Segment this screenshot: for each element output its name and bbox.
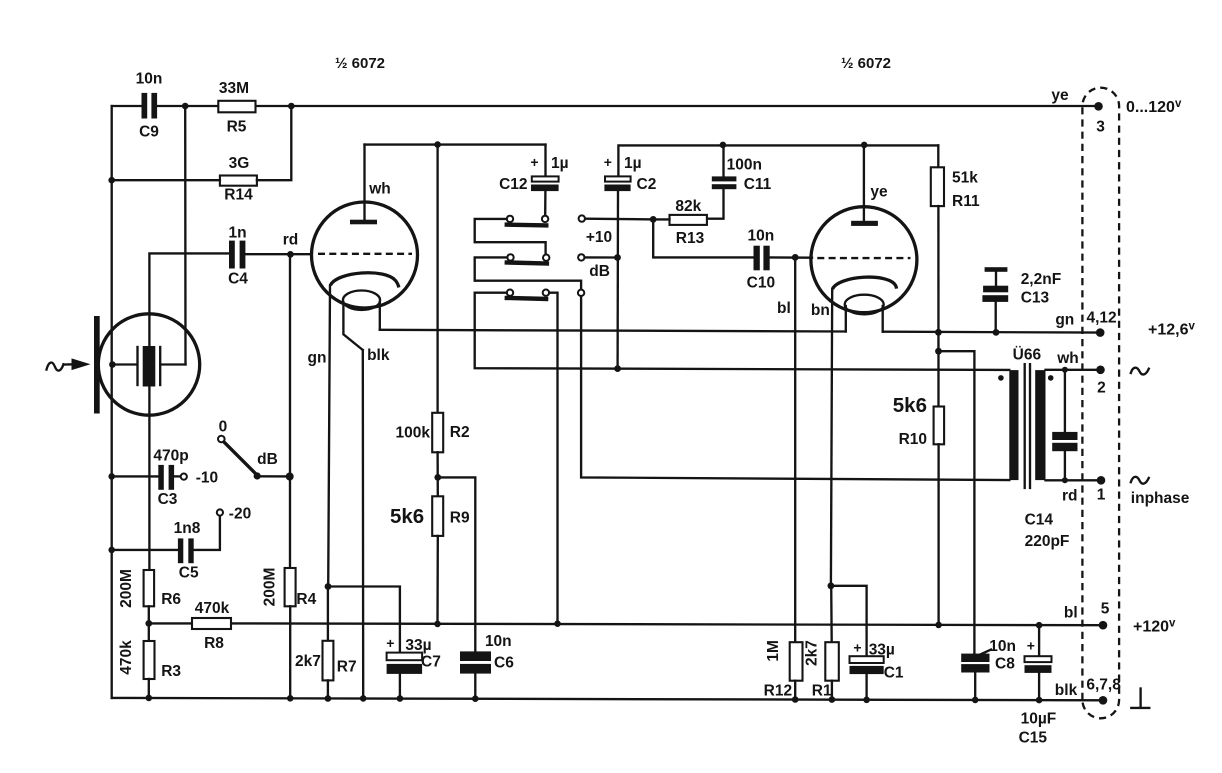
- svg-text:C11: C11: [744, 176, 772, 193]
- junction R3/ground: [146, 695, 153, 702]
- wire lower contact to transformer primary bottom: [581, 296, 1009, 480]
- capacitor C3 470p: [153, 448, 188, 508]
- svg-text:+: +: [386, 635, 394, 651]
- junction R5/R14 right: [288, 103, 295, 110]
- wire R13 node to C10: [653, 219, 753, 257]
- wire +120V rail: [231, 623, 1103, 625]
- svg-text:1µ: 1µ: [624, 155, 642, 172]
- wire left ground rail: [111, 106, 113, 698]
- svg-text:+: +: [853, 640, 861, 656]
- resistor R11 51k: [931, 145, 980, 210]
- capacitor C1 33u electrolytic: [850, 640, 904, 682]
- junction blk/ground: [360, 695, 367, 702]
- wire R14 left to ground rail: [112, 179, 220, 181]
- junction ground rail/C3: [108, 473, 115, 480]
- wire heater rail V1b to terminal 4,12: [883, 331, 1100, 334]
- svg-text:ye: ye: [870, 184, 888, 201]
- junction C15/ground: [1036, 697, 1043, 704]
- svg-text:1µ: 1µ: [551, 155, 569, 172]
- wire C5 to -20 terminal: [194, 516, 220, 550]
- svg-text:bn: bn: [811, 302, 830, 319]
- ground symbol: [1131, 689, 1149, 708]
- svg-text:R6: R6: [161, 591, 181, 608]
- svg-text:33µ: 33µ: [405, 637, 431, 654]
- wire heater rail V1a to V1b: [380, 330, 846, 332]
- transformer phase dot primary: [998, 375, 1004, 381]
- wire bl grid line down to R12: [777, 257, 795, 642]
- capacitor C7 33u electrolytic: [386, 635, 441, 674]
- terminal 2: [1096, 366, 1106, 397]
- svg-text:10n: 10n: [485, 633, 512, 650]
- switch contact row3: [505, 290, 550, 300]
- resistor R3 470k: [118, 640, 181, 680]
- svg-text:Ü66: Ü66: [1013, 347, 1042, 364]
- tube V1b half 6072 envelope: [811, 207, 917, 313]
- svg-text:C10: C10: [747, 274, 775, 291]
- junction C14 top: [1062, 367, 1068, 373]
- svg-text:10n: 10n: [136, 71, 163, 88]
- junction C15/+120V rail: [1036, 622, 1043, 629]
- wire row3 left to transformer primary top: [475, 293, 1010, 370]
- svg-text:+: +: [530, 154, 538, 170]
- svg-text:+10: +10: [586, 229, 612, 246]
- junction C6/ground: [472, 695, 479, 702]
- junction ground rail/R14: [108, 177, 115, 184]
- junction C7/ground: [397, 695, 404, 702]
- resistor R1 2k7: [803, 586, 838, 700]
- terminal 6,7,8: [1055, 676, 1121, 704]
- svg-text:R11: R11: [952, 193, 980, 210]
- wire to capsule element left: [112, 363, 136, 365]
- junction R10/+120V rail: [935, 622, 942, 629]
- resistor R14 3G: [220, 155, 257, 204]
- wire R2-R9 node to C6: [438, 477, 476, 651]
- resistor R13 82k: [670, 198, 707, 247]
- svg-text:C4: C4: [228, 271, 248, 288]
- svg-text:C12: C12: [499, 176, 527, 193]
- svg-text:C7: C7: [421, 654, 441, 671]
- svg-text:C6: C6: [494, 654, 514, 671]
- resistor R2 100k: [396, 145, 470, 453]
- svg-text:ye: ye: [1051, 87, 1069, 104]
- wire bn cathode down to R1: [811, 289, 832, 586]
- terminal -20: [217, 506, 251, 523]
- junction C8/ground: [972, 697, 979, 704]
- svg-text:-10: -10: [196, 469, 218, 486]
- svg-text:bl: bl: [1064, 605, 1078, 622]
- tube V1a half 6072 envelope: [312, 202, 418, 308]
- svg-text:200M: 200M: [262, 568, 279, 607]
- switch contact row2: [505, 254, 550, 263]
- svg-text:R4: R4: [296, 591, 316, 608]
- capacitor C2 1u electrolytic: [604, 145, 939, 193]
- wire R11 to R10: [937, 206, 939, 406]
- junction branch to C8: [935, 348, 942, 355]
- tube V1a grid: [318, 253, 412, 255]
- svg-text:200M: 200M: [118, 569, 135, 608]
- svg-text:6,7,8: 6,7,8: [1086, 676, 1121, 693]
- svg-text:bl: bl: [777, 300, 791, 317]
- svg-text:10n: 10n: [748, 228, 775, 245]
- junction grid V1b/bl: [792, 254, 799, 261]
- wire +10 contact to R13: [585, 218, 653, 221]
- resistor R7 2k7: [295, 587, 357, 681]
- wire R4 to ground rail: [289, 606, 291, 698]
- wire C1 to ground rail: [865, 674, 867, 700]
- svg-text:gn: gn: [308, 350, 327, 367]
- svg-text:C9: C9: [139, 124, 159, 141]
- capacitor C4 1n: [228, 225, 248, 288]
- svg-text:2,2nF: 2,2nF: [1021, 271, 1061, 288]
- svg-text:+: +: [1027, 637, 1035, 653]
- svg-text:2k7: 2k7: [803, 640, 820, 666]
- svg-text:5: 5: [1101, 601, 1110, 618]
- svg-text:C2: C2: [637, 176, 657, 193]
- squiggle terminal 2: [1131, 368, 1149, 375]
- resistor R12 1M: [764, 640, 803, 699]
- terminal 3: [1051, 87, 1105, 136]
- wire cathode node to C7: [328, 587, 400, 652]
- svg-text:5k6: 5k6: [893, 394, 927, 417]
- tube V1b grid: [817, 257, 910, 259]
- tube V1a anode: [350, 145, 391, 225]
- svg-text:R5: R5: [227, 119, 247, 136]
- junction C2 bus/primary wire: [614, 365, 621, 372]
- svg-text:470p: 470p: [153, 448, 188, 465]
- svg-text:rd: rd: [1062, 488, 1078, 505]
- svg-text:10µF: 10µF: [1021, 711, 1057, 728]
- svg-text:C5: C5: [179, 565, 199, 582]
- svg-text:dB: dB: [257, 451, 278, 468]
- svg-text:C1: C1: [884, 665, 904, 682]
- resistor R6 200M: [118, 569, 181, 608]
- terminal 5: [1064, 601, 1110, 630]
- junction R9/+120V rail: [434, 621, 441, 628]
- wire dB contact to C2 bus: [585, 256, 618, 258]
- junction bn/R1/C1: [828, 582, 835, 589]
- svg-text:1M: 1M: [765, 640, 782, 662]
- capacitor C14 220pF: [1025, 370, 1078, 550]
- junction R2 top on anode rail: [434, 141, 441, 148]
- svg-text:+12,6v: +12,6v: [1148, 321, 1195, 339]
- wire R14 right up to top rail: [257, 106, 291, 180]
- svg-text:100k: 100k: [396, 425, 431, 442]
- capacitor C15 10uF: [1019, 625, 1057, 746]
- switch contact row1: [505, 216, 549, 226]
- wire C7 to ground rail: [399, 674, 401, 699]
- transformer phase dot secondary: [1048, 375, 1054, 381]
- svg-text:blk: blk: [1055, 682, 1078, 699]
- terminal -10: [181, 469, 218, 486]
- svg-text:C14: C14: [1025, 512, 1054, 529]
- svg-text:R2: R2: [450, 424, 470, 441]
- svg-text:220pF: 220pF: [1025, 533, 1070, 550]
- junction switch wiper on grid line: [286, 473, 294, 481]
- svg-text:33µ: 33µ: [869, 642, 895, 659]
- junction ground rail/C5: [108, 547, 115, 554]
- wire C8 to ground rail: [974, 673, 976, 701]
- connector dashed outline: [1082, 88, 1119, 719]
- junction dB/C2 bus: [614, 254, 621, 261]
- terminal dB contact: [578, 254, 610, 280]
- microphone capsule envelope: [98, 314, 199, 415]
- junction R6/R3/R8: [145, 620, 152, 627]
- svg-text:R10: R10: [899, 431, 927, 448]
- wire secondary bottom rd to terminal 1: [1046, 480, 1102, 504]
- transformer U66 primary winding: [1009, 370, 1018, 480]
- svg-text:R7: R7: [337, 659, 357, 676]
- junction C14 bottom: [1062, 477, 1068, 483]
- resistor R8 470k: [149, 600, 231, 652]
- wire C2 bus down: [616, 191, 619, 368]
- svg-text:C15: C15: [1019, 730, 1048, 747]
- wire R6 to R3: [148, 606, 150, 641]
- svg-text:R14: R14: [224, 187, 253, 204]
- svg-text:0: 0: [219, 419, 228, 436]
- wire capsule element right to backplate line: [160, 363, 185, 365]
- svg-text:2k7: 2k7: [295, 653, 321, 670]
- svg-text:82k: 82k: [675, 198, 701, 215]
- wire row1 left to row2 right: [475, 219, 546, 254]
- terminal +10 contact: [579, 215, 613, 246]
- svg-text:5k6: 5k6: [390, 505, 424, 528]
- capacitor C9 10n: [136, 71, 163, 141]
- capacitor C10 10n: [747, 228, 775, 292]
- svg-text:blk: blk: [367, 347, 390, 364]
- junction R11 line/heater rail: [935, 329, 942, 336]
- tube V1b anode: [851, 145, 888, 226]
- svg-text:R8: R8: [204, 635, 224, 652]
- node A junction C9/R5: [182, 103, 189, 110]
- capacitor C13 2.2nF: [982, 267, 1061, 332]
- svg-text:51k: 51k: [952, 170, 978, 187]
- wire R10 to +120V rail: [937, 444, 939, 625]
- switch arm dB attenuator: [224, 442, 290, 480]
- svg-text:rd: rd: [283, 232, 299, 249]
- svg-text:1n8: 1n8: [174, 520, 201, 537]
- svg-text:C13: C13: [1021, 290, 1050, 307]
- capacitor C12 1u electrolytic: [499, 145, 569, 193]
- terminal 0: [218, 419, 227, 443]
- wire branch to C8: [939, 351, 975, 653]
- svg-text:3: 3: [1096, 119, 1105, 136]
- wire C10 to grid V1b: [770, 256, 812, 259]
- wire bottom ground rail: [112, 698, 1103, 700]
- wire C12 to switch contact: [544, 191, 547, 215]
- junction V1b anode rail: [861, 142, 868, 149]
- svg-text:2: 2: [1097, 380, 1106, 397]
- junction R2/R9/C6: [434, 474, 441, 481]
- wire anode rail to C12: [365, 143, 546, 145]
- tube V1b cathode: [832, 277, 896, 289]
- wire R7 to ground rail: [327, 680, 329, 698]
- junction C11 top rail: [720, 142, 727, 149]
- svg-text:R9: R9: [450, 510, 470, 527]
- wire R13 left node: [653, 218, 669, 220]
- junction C1/ground: [863, 697, 870, 704]
- svg-text:3G: 3G: [229, 155, 250, 172]
- svg-text:½ 6072: ½ 6072: [335, 55, 385, 72]
- resistor R9 5k6: [390, 496, 470, 536]
- wire C4 left to capsule diaphragm down to R6: [149, 253, 229, 570]
- junction R12/ground: [792, 696, 799, 703]
- wire row2 left to lower contact: [475, 257, 581, 289]
- junction R4/ground: [287, 695, 294, 702]
- svg-text:100n: 100n: [727, 156, 762, 173]
- junction column/+120V rail: [554, 620, 561, 627]
- tube V1a heater: [343, 291, 380, 351]
- junction C13/heater rail: [993, 329, 1000, 336]
- svg-text:½ 6072: ½ 6072: [841, 55, 891, 72]
- junction R13 left: [650, 216, 657, 223]
- svg-text:R12: R12: [764, 683, 792, 700]
- junction R1/ground: [829, 696, 836, 703]
- wire rd node down to R4: [289, 254, 291, 568]
- svg-text:-20: -20: [229, 506, 251, 523]
- wire blk heater to ground rail: [363, 347, 390, 698]
- wire C15 to ground rail: [1038, 673, 1040, 700]
- svg-text:470k: 470k: [195, 600, 230, 617]
- svg-text:R3: R3: [161, 663, 181, 680]
- wire C11 bottom to R13: [707, 189, 724, 219]
- svg-text:470k: 470k: [118, 640, 135, 675]
- transformer U66 core: [1025, 364, 1030, 488]
- capsule transducer element: [138, 346, 161, 387]
- squiggle terminal 1 inphase: [1131, 477, 1190, 507]
- junction R7/ground: [325, 695, 332, 702]
- terminal 4,12: [1055, 309, 1116, 337]
- svg-text:R13: R13: [676, 230, 705, 247]
- svg-text:C3: C3: [158, 491, 178, 508]
- wire bn node to C1: [831, 586, 867, 655]
- svg-text:wh: wh: [368, 181, 391, 198]
- resistor R4 200M: [262, 568, 317, 608]
- capacitor C5 1n8: [174, 520, 201, 582]
- svg-text:1n: 1n: [228, 225, 246, 242]
- wire C6 to ground rail: [474, 674, 476, 699]
- wire R12 to ground rail: [794, 681, 796, 700]
- junction ground rail inside capsule: [109, 361, 116, 368]
- switch lower contact: [578, 290, 584, 296]
- tube V1b heater: [845, 295, 884, 332]
- wire ground rail to C5: [112, 549, 178, 551]
- wire ground rail to C3: [112, 475, 159, 477]
- svg-text:0...120v: 0...120v: [1126, 98, 1182, 116]
- svg-text:wh: wh: [1056, 350, 1079, 367]
- wire row3 right to +120V rail: [549, 293, 557, 624]
- svg-text:dB: dB: [589, 263, 610, 280]
- wire top rail 0...120V: [112, 105, 1099, 107]
- svg-text:C8: C8: [995, 656, 1015, 673]
- wire R9 to +120V rail: [436, 536, 439, 624]
- wire C4 to grid of V1a: [245, 253, 311, 255]
- node rd junction: [283, 232, 299, 258]
- svg-text:10n: 10n: [989, 638, 1016, 655]
- svg-text:+: +: [604, 154, 612, 170]
- transformer U66 secondary winding: [1035, 370, 1045, 480]
- svg-text:R1: R1: [812, 683, 832, 700]
- terminal 1: [1097, 476, 1106, 503]
- wire R2 to R9: [436, 452, 439, 496]
- wire R3 to ground rail: [148, 679, 150, 698]
- tube V1a cathode: [330, 273, 399, 288]
- svg-text:inphase: inphase: [1131, 490, 1190, 507]
- resistor R5 33M: [218, 80, 255, 136]
- wire R1 to ground rail: [831, 681, 833, 700]
- capacitor C8 10n: [961, 638, 1016, 673]
- wire C3 to -10 terminal: [174, 475, 181, 477]
- sound arrow: [47, 358, 91, 370]
- wire secondary top wh to terminal 2: [1046, 350, 1101, 370]
- svg-text:33M: 33M: [219, 80, 249, 97]
- svg-text:1: 1: [1097, 486, 1106, 503]
- svg-text:4,12: 4,12: [1087, 309, 1117, 326]
- capsule diaphragm plate: [94, 316, 100, 414]
- capacitor C11 100n: [712, 145, 772, 193]
- wire gn cathode down: [308, 286, 330, 587]
- resistor R10 5k6: [893, 394, 944, 448]
- wire node A to capsule backplate: [184, 106, 187, 365]
- junction gn/R7/C7: [325, 583, 332, 590]
- svg-text:gn: gn: [1055, 312, 1074, 329]
- capacitor C6 10n: [460, 633, 514, 674]
